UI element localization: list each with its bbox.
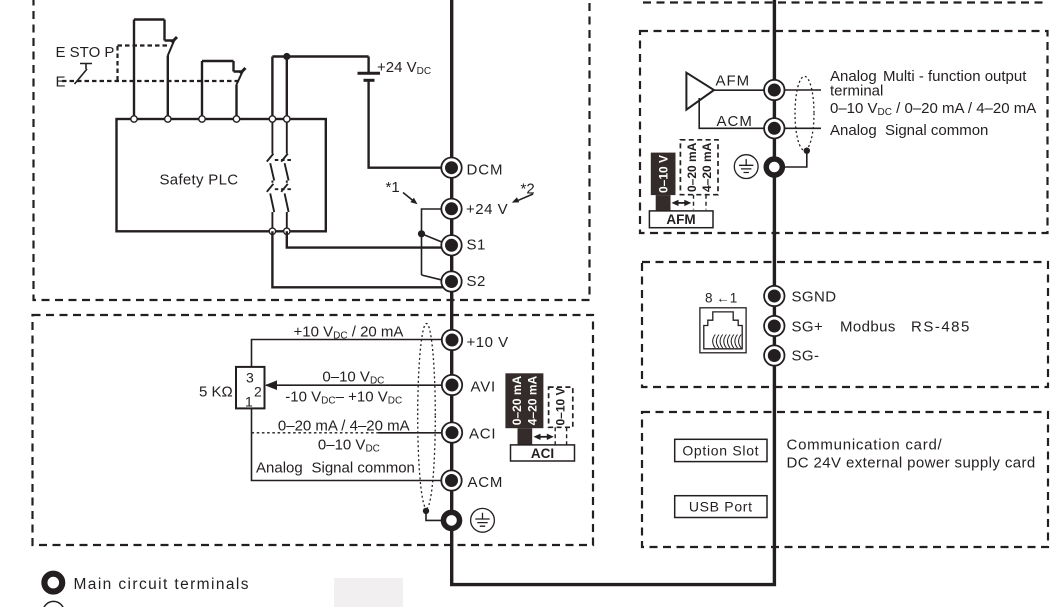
svg-text:Safety PLC: Safety PLC — [160, 172, 239, 189]
svg-text:0–10 VDC: 0–10 VDC — [322, 369, 384, 387]
svg-text:+10 VDC / 20 mA: +10 VDC / 20 mA — [294, 324, 404, 342]
svg-text:0–10 V: 0–10 V — [656, 155, 670, 193]
svg-text:USB Port: USB Port — [689, 499, 753, 515]
svg-text:*1: *1 — [386, 179, 400, 196]
svg-text:ACM: ACM — [717, 113, 753, 130]
svg-text:2: 2 — [254, 384, 262, 400]
svg-text:Main circuit terminals: Main circuit terminals — [74, 576, 250, 593]
svg-text:ACI: ACI — [469, 425, 496, 442]
svg-text:ACI: ACI — [531, 446, 554, 461]
svg-text:+24 VDC: +24 VDC — [377, 59, 431, 77]
svg-text:RS-485: RS-485 — [911, 319, 971, 336]
svg-text:3: 3 — [246, 370, 254, 386]
svg-text:0–20 mA / 4–20 mA: 0–20 mA / 4–20 mA — [278, 418, 410, 435]
svg-text:Analog: Analog — [830, 122, 877, 139]
svg-text:SG+: SG+ — [792, 319, 824, 336]
svg-text:4–20 mA: 4–20 mA — [526, 375, 540, 425]
svg-text:5 KΩ: 5 KΩ — [199, 384, 233, 401]
svg-text:Analog: Analog — [256, 460, 303, 477]
svg-text:S1: S1 — [467, 237, 486, 254]
svg-text:SG-: SG- — [792, 348, 820, 365]
svg-text:Signal common: Signal common — [885, 122, 988, 139]
svg-text:4–20 mA: 4–20 mA — [700, 142, 714, 192]
svg-text:AFM: AFM — [666, 212, 695, 227]
svg-text:S2: S2 — [467, 273, 486, 290]
svg-text:0–10 VDC / 0–20 mA / 4–20 mA: 0–10 VDC / 0–20 mA / 4–20 mA — [830, 100, 1036, 118]
svg-text:Option Slot: Option Slot — [682, 443, 759, 459]
svg-text:8 ←1: 8 ←1 — [705, 291, 737, 306]
svg-text:+24 V: +24 V — [466, 201, 508, 218]
svg-text:Signal common: Signal common — [312, 460, 415, 477]
svg-text:0–10 V: 0–10 V — [554, 387, 568, 425]
svg-text:terminal: terminal — [830, 83, 883, 100]
svg-text:1: 1 — [245, 394, 253, 410]
svg-text:ACM: ACM — [468, 474, 504, 491]
svg-text:AVI: AVI — [471, 379, 496, 396]
svg-text:Multi - function output: Multi - function output — [883, 68, 1027, 85]
svg-text:+10 V: +10 V — [467, 334, 509, 351]
svg-text:Modbus: Modbus — [840, 319, 896, 336]
svg-text:0–20 mA: 0–20 mA — [510, 375, 524, 425]
svg-text:0–10 VDC: 0–10 VDC — [318, 437, 380, 455]
svg-text:0–20 mA: 0–20 mA — [685, 142, 699, 192]
svg-text:E STO P: E STO P — [56, 44, 115, 61]
svg-text:AFM: AFM — [716, 73, 751, 90]
svg-text:SGND: SGND — [792, 289, 837, 306]
svg-text:Communication card/: Communication card/ — [787, 437, 943, 454]
svg-text:-10 VDC– +10 VDC: -10 VDC– +10 VDC — [285, 389, 402, 407]
svg-text:DC 24V external power supply c: DC 24V external power supply card — [787, 455, 1036, 472]
svg-text:DCM: DCM — [467, 162, 504, 179]
